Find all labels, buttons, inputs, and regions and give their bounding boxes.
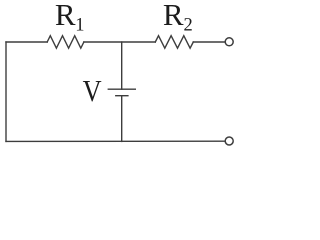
wire: top-left segment	[6, 41, 47, 43]
svg-text:R: R	[163, 0, 184, 32]
terminal: top-right open circle	[225, 38, 233, 46]
wire: battery branch lower	[121, 96, 123, 142]
svg-text:V: V	[83, 74, 102, 108]
svg-text:R: R	[55, 0, 76, 32]
svg-text:2: 2	[184, 16, 193, 36]
battery V: short plate	[116, 95, 128, 97]
battery V: long plate	[108, 88, 135, 90]
wire: top middle segment	[84, 41, 155, 43]
wire: bottom horizontal	[6, 140, 225, 142]
resistor R2	[155, 36, 193, 49]
svg-text:1: 1	[75, 16, 84, 36]
wire: top-right segment	[193, 41, 225, 43]
terminal: bottom-right open circle	[225, 137, 233, 145]
wire: battery branch upper	[121, 42, 123, 89]
resistor R1	[47, 36, 84, 49]
wire: left vertical	[5, 42, 7, 141]
